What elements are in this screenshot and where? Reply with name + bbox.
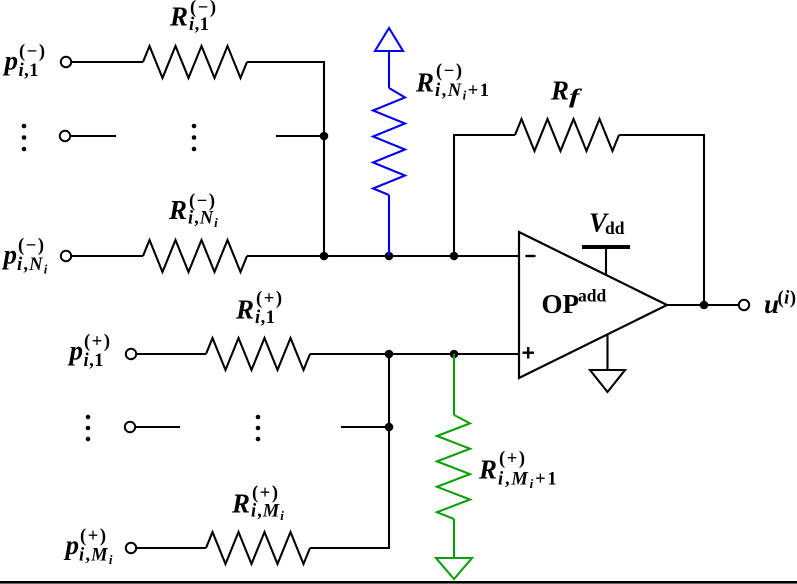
terminal p_i1_minus — [61, 57, 71, 67]
svg-text:R: R — [169, 2, 188, 32]
label Rf — [550, 76, 583, 109]
label p_i1_plus — [68, 332, 112, 371]
svg-text:(+): (+) — [80, 527, 108, 547]
label p_iNi_minus — [2, 236, 49, 277]
label Vdd — [589, 208, 625, 239]
wire — [72, 255, 144, 257]
Vdd supply bar — [582, 245, 630, 275]
svg-text:add: add — [578, 286, 606, 306]
svg-text:p: p — [2, 240, 18, 270]
wire — [71, 135, 117, 137]
dots row bottom middle — [256, 415, 261, 442]
junction — [320, 252, 329, 261]
supply arrow blue — [375, 28, 403, 88]
svg-text:i,1: i,1 — [189, 15, 210, 35]
wire — [137, 353, 207, 355]
wire — [247, 62, 324, 256]
svg-text:i,Mi: i,Mi — [251, 502, 285, 524]
svg-text:i,Mi: i,Mi — [79, 546, 114, 568]
svg-text:i,1: i,1 — [255, 308, 276, 328]
wire — [341, 426, 389, 428]
svg-text:(+): (+) — [84, 332, 112, 352]
svg-text:i,1: i,1 — [84, 351, 105, 371]
svg-text:dd: dd — [605, 218, 625, 238]
svg-text:R: R — [231, 489, 250, 519]
wire plus line — [310, 353, 519, 355]
wire blue — [388, 195, 390, 256]
resistor R_i1_plus — [206, 338, 310, 370]
junction — [385, 252, 394, 261]
label p_i1_minus — [3, 42, 47, 81]
svg-text:OP: OP — [542, 289, 580, 319]
svg-text:R: R — [478, 455, 497, 485]
svg-text:i,1: i,1 — [19, 61, 40, 81]
svg-text:i,Mi+1: i,Mi+1 — [498, 470, 558, 492]
junction — [320, 132, 329, 141]
junction — [385, 350, 394, 359]
terminal p_iNi_minus — [61, 251, 71, 261]
op-amp U1 — [519, 232, 667, 378]
terminal p_i1_plus — [126, 349, 136, 359]
label R_i1_minus — [169, 0, 218, 35]
svg-text:R: R — [168, 195, 187, 225]
junction — [450, 350, 459, 359]
svg-text:(−): (−) — [19, 42, 47, 62]
svg-text:R: R — [235, 295, 254, 325]
resistor R_iMi_plus — [206, 532, 310, 564]
svg-text:(+): (+) — [256, 289, 284, 309]
wire output — [667, 304, 739, 306]
svg-text:R: R — [415, 68, 434, 98]
resistor Rf — [515, 119, 619, 151]
svg-text:(i): (i) — [778, 289, 797, 309]
junction output — [700, 301, 709, 310]
wire — [72, 61, 144, 63]
terminal dots row top — [60, 131, 70, 141]
wire plus bus — [388, 354, 390, 548]
svg-text:p: p — [64, 530, 80, 560]
svg-text:R: R — [550, 76, 569, 106]
svg-text:(+): (+) — [252, 484, 280, 504]
dots row top middle — [192, 124, 197, 152]
wire minus line — [247, 255, 519, 257]
svg-text:i,Ni+1: i,Ni+1 — [435, 81, 491, 103]
wire Rf right — [619, 135, 704, 305]
resistor R_iNi_minus — [143, 240, 247, 272]
resistor R_i1_minus — [143, 46, 247, 78]
wire — [276, 135, 324, 137]
junction — [450, 252, 459, 261]
terminal output — [739, 300, 749, 310]
label R_iNi1_minus — [415, 62, 491, 103]
ground green — [436, 519, 472, 579]
wire Rf left — [454, 135, 515, 256]
wire — [310, 546, 389, 548]
svg-text:p: p — [3, 46, 19, 76]
svg-text:p: p — [68, 336, 84, 366]
label R_iNi_minus — [168, 192, 219, 231]
resistor R_iNi+1_minus blue — [373, 88, 405, 195]
wire — [137, 547, 207, 549]
terminal p_iMi_plus — [126, 543, 136, 553]
label p_iMi_plus — [64, 527, 114, 568]
label R_iMi_plus — [231, 484, 285, 524]
terminal dots row bottom — [125, 422, 135, 432]
label R_iMi1_plus — [478, 449, 558, 491]
dots row bottom left — [86, 415, 91, 442]
label R_i1_plus — [235, 289, 284, 328]
svg-text:(−): (−) — [18, 236, 46, 256]
svg-text:i,Ni: i,Ni — [188, 209, 219, 231]
bottom rule — [0, 581, 797, 584]
svg-text:(−): (−) — [436, 62, 464, 82]
junction — [385, 423, 394, 432]
svg-text:(+): (+) — [499, 449, 527, 469]
wire green top — [453, 354, 455, 415]
dots row top left — [22, 124, 27, 152]
svg-text:i,Ni: i,Ni — [17, 255, 49, 277]
wire — [136, 426, 181, 428]
svg-text:f: f — [569, 84, 583, 108]
label u_i — [764, 289, 796, 320]
resistor R_iMi+1_plus green — [437, 415, 470, 519]
ground op-amp — [590, 334, 625, 392]
